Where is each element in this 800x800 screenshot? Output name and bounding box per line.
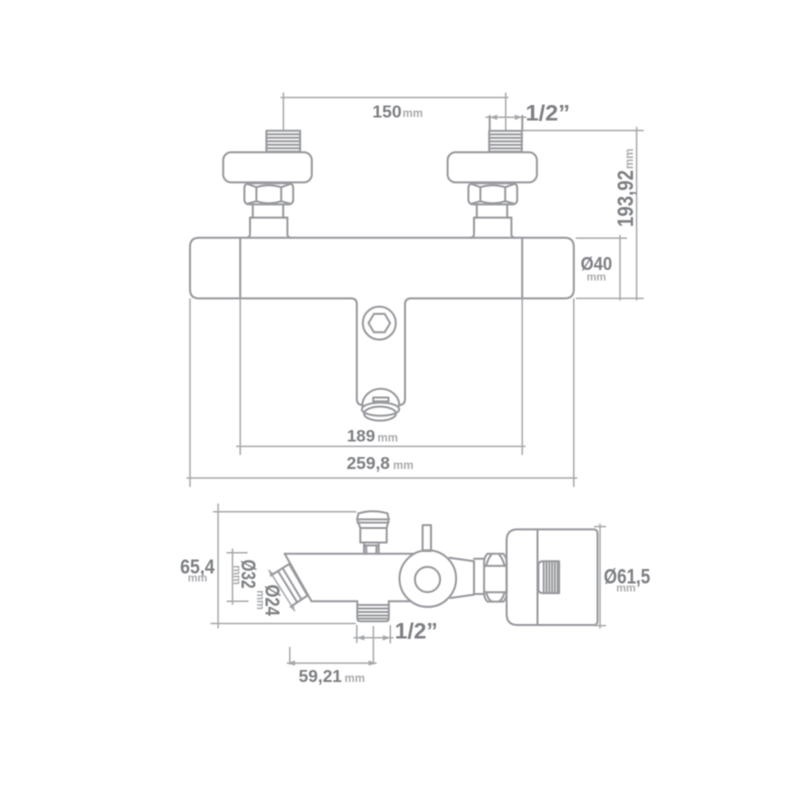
svg-text:mm: mm [616, 583, 636, 595]
wall pipe left (threaded) [266, 131, 300, 152]
label diameter 40mm [581, 254, 613, 284]
hex nut (side view) [484, 554, 507, 602]
knob center boss [415, 567, 440, 592]
cap neck [364, 543, 379, 554]
body tube bottom edge (side) [312, 600, 412, 602]
body tube top edge (side) [285, 553, 415, 555]
label diameter 32mm (rotated) [231, 560, 259, 589]
escutcheon flange right [448, 152, 537, 182]
svg-text:mm: mm [378, 433, 398, 445]
svg-text:mm: mm [403, 108, 423, 120]
dimension diameter 32mm [227, 549, 249, 605]
svg-text:1/2”: 1/2” [526, 100, 571, 125]
spout nozzle (diagonal, side view) [272, 564, 308, 606]
cone to hex adapter [450, 558, 485, 598]
dimension 1/2 inch bottom [354, 625, 394, 644]
threaded boss on head [538, 561, 559, 593]
dimension diameter 40mm [576, 235, 627, 301]
label diameter 24mm (rotated) [254, 584, 283, 616]
label 150mm [372, 102, 423, 122]
hex screw on riser [363, 307, 396, 340]
body end cap line right [521, 238, 523, 299]
mixer body (front) [190, 238, 574, 299]
dimension 59.21mm [287, 626, 377, 666]
union tail piece left [247, 204, 291, 237]
dimension diameter 61.5mm [594, 524, 606, 629]
svg-text:mm: mm [345, 673, 365, 685]
escutcheon flange left [223, 152, 312, 182]
check valve cap (side) [357, 511, 389, 542]
svg-text:150: 150 [372, 102, 401, 122]
dimension 65.4mm [210, 504, 356, 629]
hex union nut right [468, 183, 517, 204]
label 259.8mm [347, 453, 414, 473]
dimension 259.8mm [187, 298, 578, 487]
svg-text:mm: mm [393, 460, 413, 472]
dimension 189mm [236, 298, 526, 455]
body end cap line left [239, 238, 241, 299]
dimension 193.92mm [523, 127, 644, 301]
label 189mm [347, 427, 398, 446]
shower riser tube [352, 298, 410, 405]
svg-text:193,92: 193,92 [613, 170, 638, 227]
union tail piece right [471, 204, 515, 237]
svg-text:259,8: 259,8 [347, 453, 391, 473]
svg-text:1/2”: 1/2” [395, 618, 438, 643]
svg-text:mm: mm [624, 149, 636, 169]
dimension diameter 24 arrows (diagonal) [269, 570, 295, 611]
dimension 1/2 inch arrows top [486, 115, 527, 120]
svg-text:189: 189 [347, 427, 375, 446]
label 65.4mm [180, 557, 215, 585]
outlet spout (front) [362, 389, 400, 421]
svg-text:59,21: 59,21 [299, 666, 343, 686]
svg-text:mm: mm [254, 590, 266, 610]
dimension 150mm line [281, 93, 509, 132]
control knob (circle) [400, 550, 457, 607]
body bevel edge (side) [285, 554, 312, 602]
label 59.21mm [299, 666, 365, 686]
wall pipe right (plain top + threaded) [489, 116, 522, 152]
shower head body [507, 529, 598, 625]
svg-text:mm: mm [188, 572, 208, 584]
outlet 1/2 bottom (side, threaded) [357, 601, 389, 621]
svg-text:mm: mm [587, 272, 607, 284]
temperature stem [423, 525, 431, 551]
hex union nut left [244, 183, 293, 204]
svg-text:mm: mm [231, 565, 243, 585]
label diameter 61.5mm [604, 565, 651, 595]
